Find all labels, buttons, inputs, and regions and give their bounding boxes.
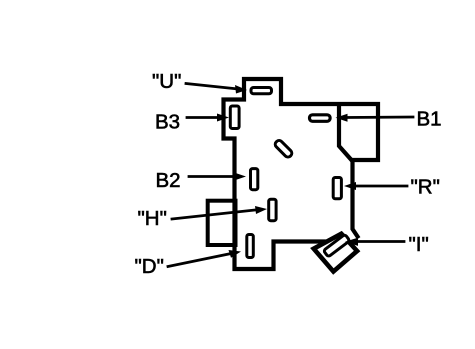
svg-text:"U": "U": [152, 70, 181, 93]
svg-text:"I": "I": [409, 233, 429, 256]
button B2 rect: [251, 169, 258, 190]
button "R" rect: [333, 178, 341, 199]
svg-text:"D": "D": [135, 255, 164, 278]
button B1 rect: [310, 115, 331, 122]
arrow I: [345, 238, 404, 246]
arrow B2: [189, 173, 246, 181]
arrow D: [168, 250, 241, 267]
arrow U: [186, 84, 247, 94]
svg-text:"H": "H": [138, 207, 167, 230]
button "U" rect: [251, 88, 272, 94]
svg-text:B3: B3: [155, 111, 180, 134]
button B3 rect: [230, 106, 239, 129]
board outline (main body): [224, 79, 379, 269]
small diagonal rect (center): [274, 139, 293, 158]
arrow R: [344, 182, 407, 190]
left square protrusion: [208, 201, 236, 245]
diamond (rotated connector): [314, 234, 357, 272]
svg-text:B2: B2: [156, 169, 181, 192]
pocket (top-right inner wall): [339, 106, 351, 160]
svg-text:B1: B1: [417, 108, 442, 131]
svg-text:"R": "R": [411, 176, 440, 199]
button "D" rect: [247, 235, 254, 258]
arrow B1: [336, 114, 414, 122]
arrow H: [172, 206, 267, 219]
button "H" rect: [269, 199, 276, 221]
button inside diamond: [323, 234, 349, 257]
arrow B3: [187, 114, 229, 122]
